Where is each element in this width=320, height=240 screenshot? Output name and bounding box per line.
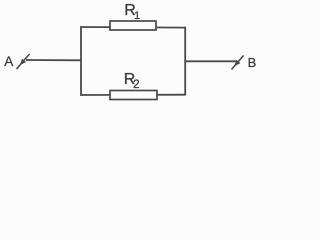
- svg-text:A: A: [4, 54, 13, 69]
- node B arrow: [232, 56, 244, 70]
- resistor R2: [110, 91, 157, 100]
- wire terminal A: [26, 59, 81, 61]
- svg-text:B: B: [248, 55, 257, 70]
- wire top: [81, 26, 186, 29]
- svg-text:1: 1: [134, 10, 140, 22]
- wire terminal B: [185, 60, 237, 62]
- svg-text:2: 2: [133, 77, 140, 91]
- wire bottom: [81, 94, 186, 96]
- wire right bus: [184, 27, 186, 96]
- wire left bus: [80, 26, 82, 96]
- resistor R1: [110, 21, 156, 30]
- node A arrow: [17, 54, 30, 69]
